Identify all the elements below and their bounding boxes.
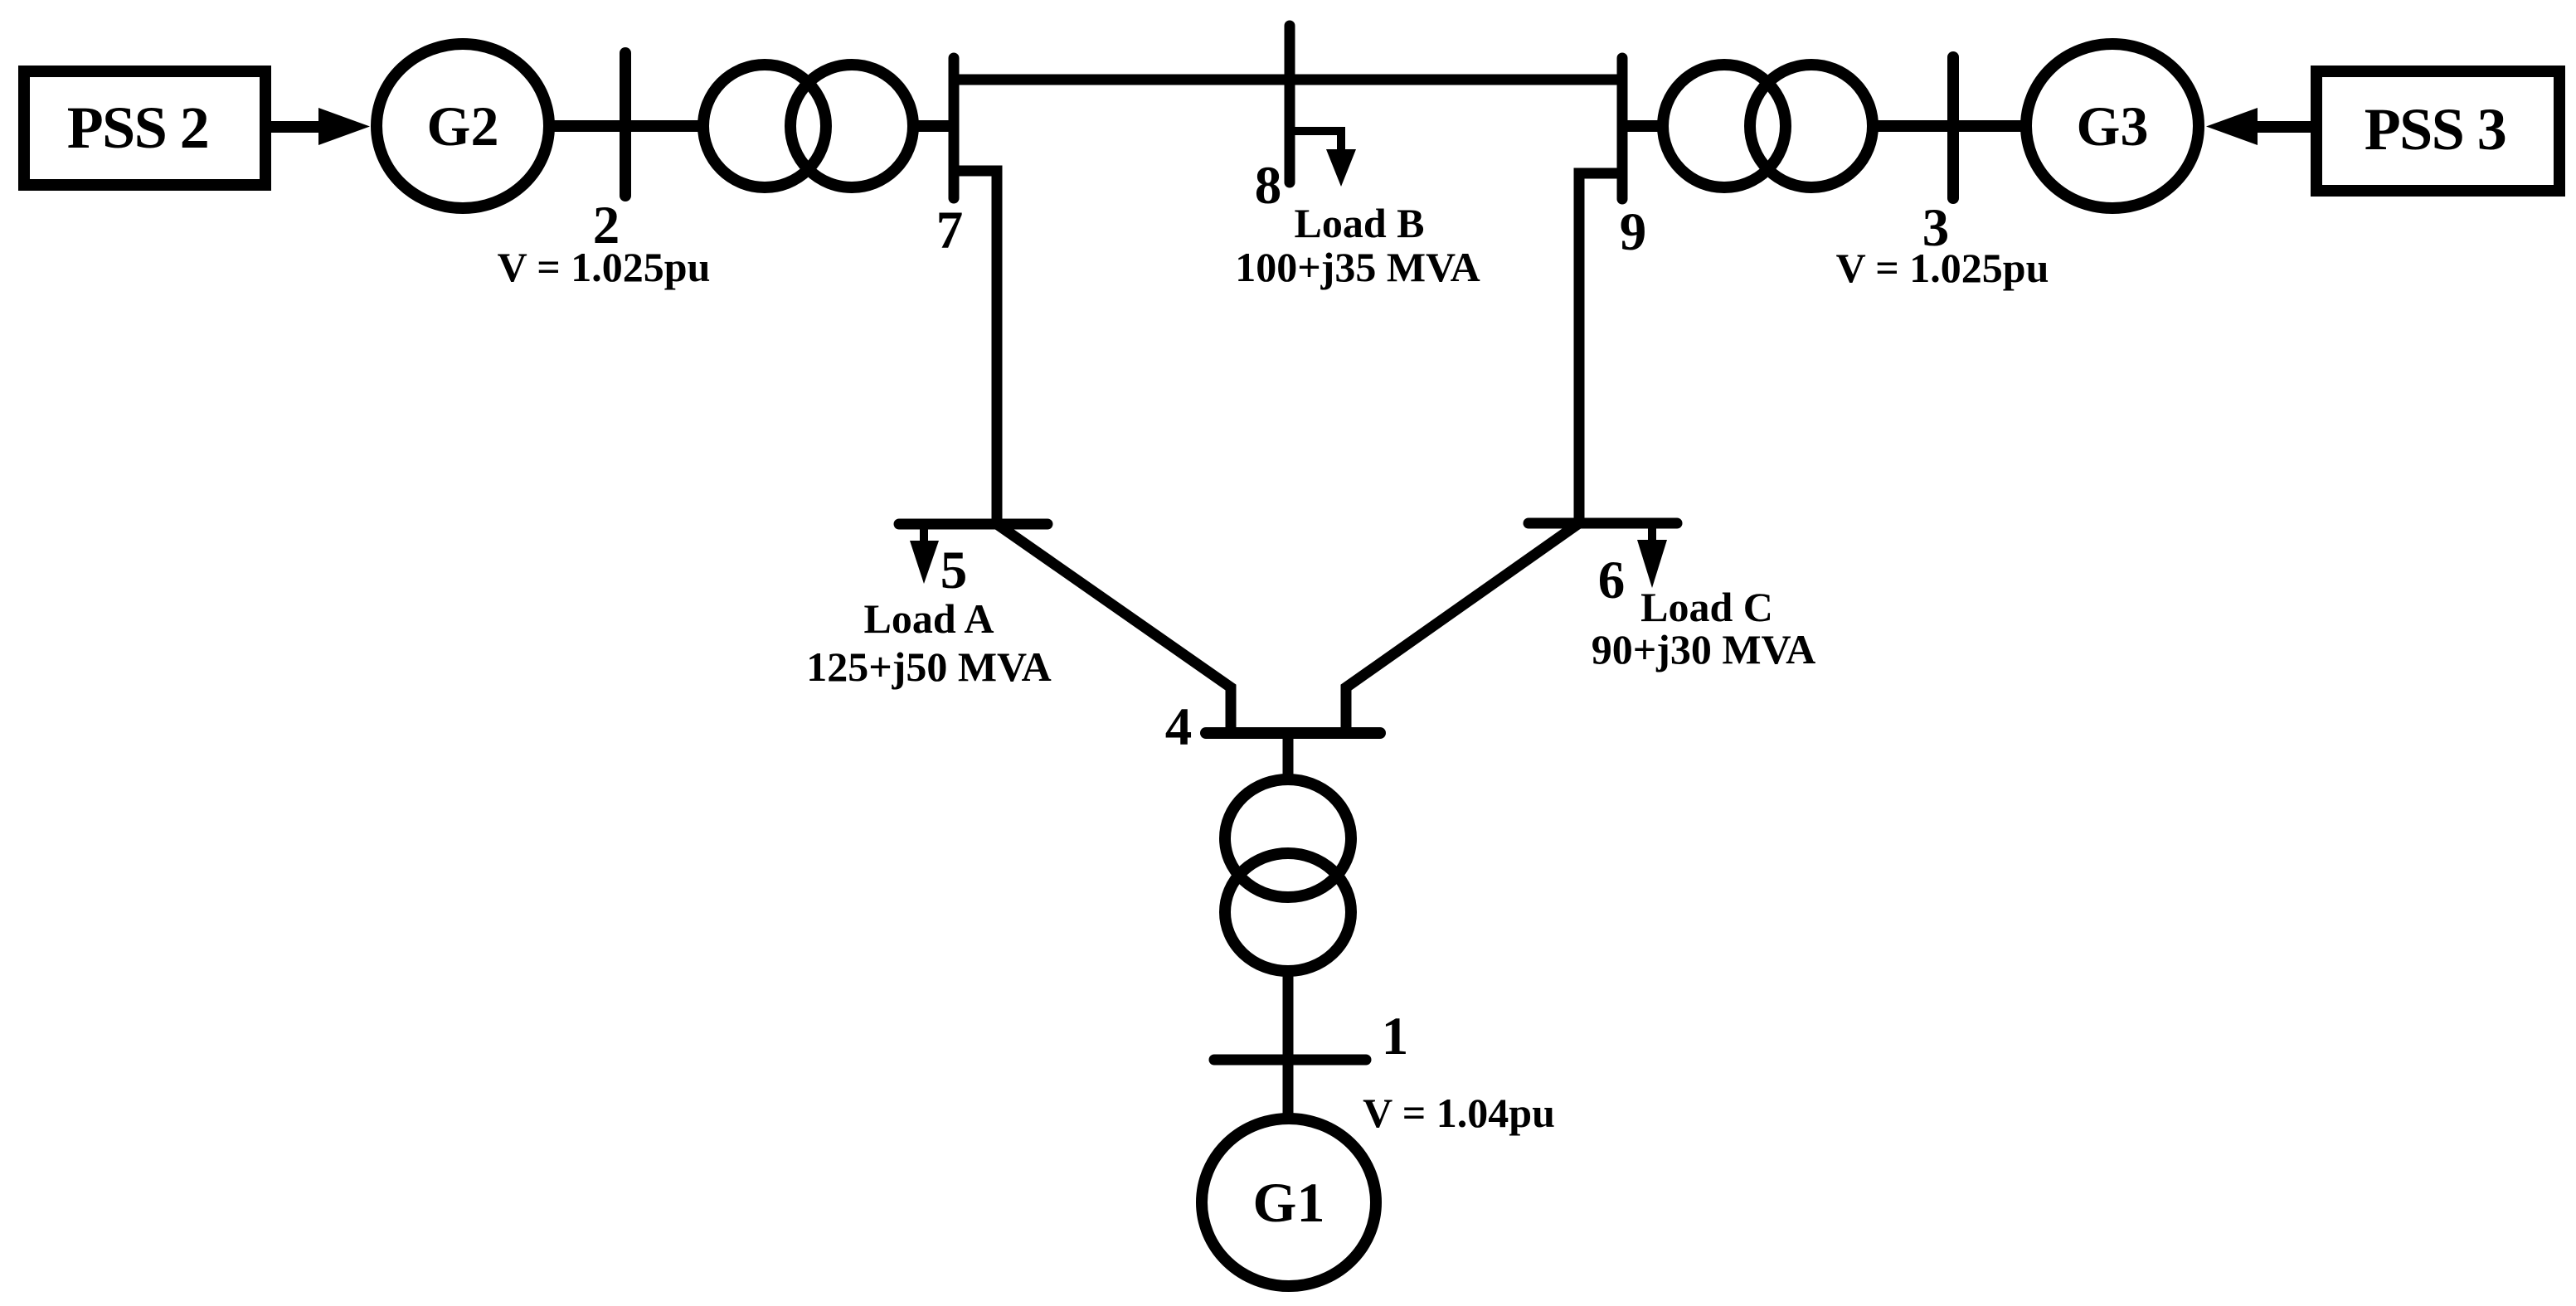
generator G2 <box>377 44 549 208</box>
svg-text:Load B: Load B <box>1294 200 1424 246</box>
wire bus 3 to G3 <box>1953 120 2028 132</box>
wire bus 2 to transformer T2 <box>625 120 703 132</box>
wire bus 7 branch down to bus 5 <box>954 171 997 524</box>
svg-text:8: 8 <box>1255 156 1282 216</box>
wire G2 to bus 2 <box>552 120 625 132</box>
wire bus 9 to transformer T3 <box>1622 120 1662 132</box>
load A arrow <box>910 529 939 584</box>
bus 2 <box>620 53 631 196</box>
arrow PSS2 to G2 <box>271 108 370 145</box>
PSS2 box <box>24 71 265 185</box>
load C arrow <box>1637 528 1667 588</box>
svg-text:V = 1.04pu: V = 1.04pu <box>1363 1090 1555 1136</box>
svg-text:1: 1 <box>1382 1007 1409 1066</box>
transformer T1 <box>1225 779 1351 971</box>
svg-text:G2: G2 <box>427 95 499 158</box>
generator G1 <box>1202 1119 1376 1286</box>
svg-text:G3: G3 <box>2077 95 2149 158</box>
wire T2 to bus 7 <box>914 120 954 132</box>
svg-text:V = 1.025pu: V = 1.025pu <box>498 244 711 290</box>
svg-text:G1: G1 <box>1253 1171 1325 1234</box>
svg-text:Load C: Load C <box>1640 584 1773 630</box>
svg-text:9: 9 <box>1620 202 1647 262</box>
generator G3 <box>2026 44 2199 208</box>
wire bus 4 to transformer T1 <box>1283 733 1294 777</box>
line bus 5 to bus 4 <box>997 524 1231 733</box>
bus 7 <box>949 58 960 198</box>
svg-text:7: 7 <box>936 201 964 260</box>
svg-text:90+j30 MVA: 90+j30 MVA <box>1592 626 1816 672</box>
bus 5 <box>899 519 1047 530</box>
arrow PSS3 to G3 <box>2206 108 2311 145</box>
svg-text:6: 6 <box>1598 551 1626 610</box>
svg-text:100+j35 MVA: 100+j35 MVA <box>1235 244 1480 290</box>
svg-text:PSS 2: PSS 2 <box>67 95 209 161</box>
bus 8 <box>1285 26 1295 182</box>
transformer T2 <box>703 65 913 187</box>
bus 6 <box>1529 518 1677 529</box>
bus 1 <box>1214 1055 1366 1066</box>
wire bus 9 branch down to bus 6 <box>1579 173 1622 523</box>
svg-text:125+j50 MVA: 125+j50 MVA <box>806 643 1052 690</box>
bus 3 <box>1947 57 1959 198</box>
wire T3 to bus 3 <box>1873 120 1953 132</box>
bus 9 <box>1617 58 1628 199</box>
svg-text:Load A: Load A <box>863 595 994 642</box>
load B arrow <box>1290 131 1356 187</box>
svg-text:5: 5 <box>940 541 968 600</box>
svg-text:4: 4 <box>1165 697 1193 757</box>
line bus 6 to bus 4 <box>1346 523 1579 733</box>
bus 4 <box>1206 727 1380 739</box>
transmission line bus7-bus9 (top) <box>954 75 1622 85</box>
svg-text:V = 1.025pu: V = 1.025pu <box>1836 245 2049 291</box>
wire T1 to G1 through bus 1 <box>1283 973 1294 1116</box>
svg-text:PSS 3: PSS 3 <box>2365 96 2506 163</box>
transformer T3 <box>1663 65 1873 187</box>
PSS3 box <box>2316 71 2559 191</box>
